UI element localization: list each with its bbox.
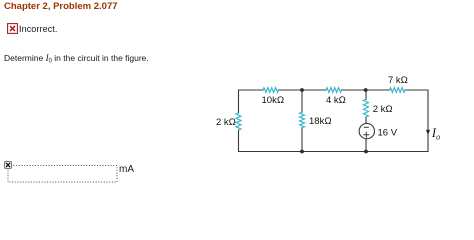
voltage source 16V: [359, 123, 374, 138]
bottom dot source: [364, 150, 368, 154]
wire 18k branch upper: [301, 90, 303, 113]
resistor 2kOhm left: [236, 113, 241, 130]
svg-text:2 kΩ: 2 kΩ: [373, 104, 393, 115]
incorrect text: [19, 24, 58, 34]
wire 4k to node B: [342, 89, 390, 91]
answer input box (dashed): [7, 164, 119, 184]
node B dot: [364, 88, 368, 92]
node A dot: [300, 88, 304, 92]
wire 10k to node A: [279, 89, 327, 91]
wire top segment left corner to 10k: [239, 90, 264, 113]
resistor 10kOhm: [263, 88, 279, 93]
resistor 7kOhm: [390, 88, 406, 93]
resistor 2kOhm right: [364, 99, 369, 117]
current arrow Io: [426, 130, 430, 135]
wire source to bottom: [365, 139, 367, 152]
title: Chapter 2, Problem 2.077: [4, 1, 118, 12]
wire 2k-right branch upper: [365, 90, 367, 100]
bottom dot 18k: [300, 150, 304, 154]
question text: [4, 53, 149, 65]
incorrect icon: [7, 23, 18, 34]
wire left edge lower + bottom edge: [239, 130, 429, 152]
resistor 4kOhm: [326, 88, 342, 93]
wire 2k-right to source: [365, 117, 367, 124]
svg-text:16 V: 16 V: [378, 127, 398, 138]
unit label mA: [119, 164, 134, 175]
wire 18k branch lower: [301, 128, 303, 152]
wire 7k to top-right corner, down right edge: [405, 90, 428, 152]
answer wrong icon: [4, 161, 12, 169]
circuit figure: [0, 0, 474, 188]
svg-text:18kΩ: 18kΩ: [309, 116, 332, 127]
svg-text:2 kΩ: 2 kΩ: [216, 117, 236, 128]
svg-text:7 kΩ: 7 kΩ: [388, 75, 408, 86]
svg-text:4 kΩ: 4 kΩ: [326, 95, 346, 106]
svg-text:10kΩ: 10kΩ: [262, 95, 285, 106]
resistor 18kOhm: [300, 112, 305, 127]
svg-text:Io: Io: [431, 126, 440, 142]
